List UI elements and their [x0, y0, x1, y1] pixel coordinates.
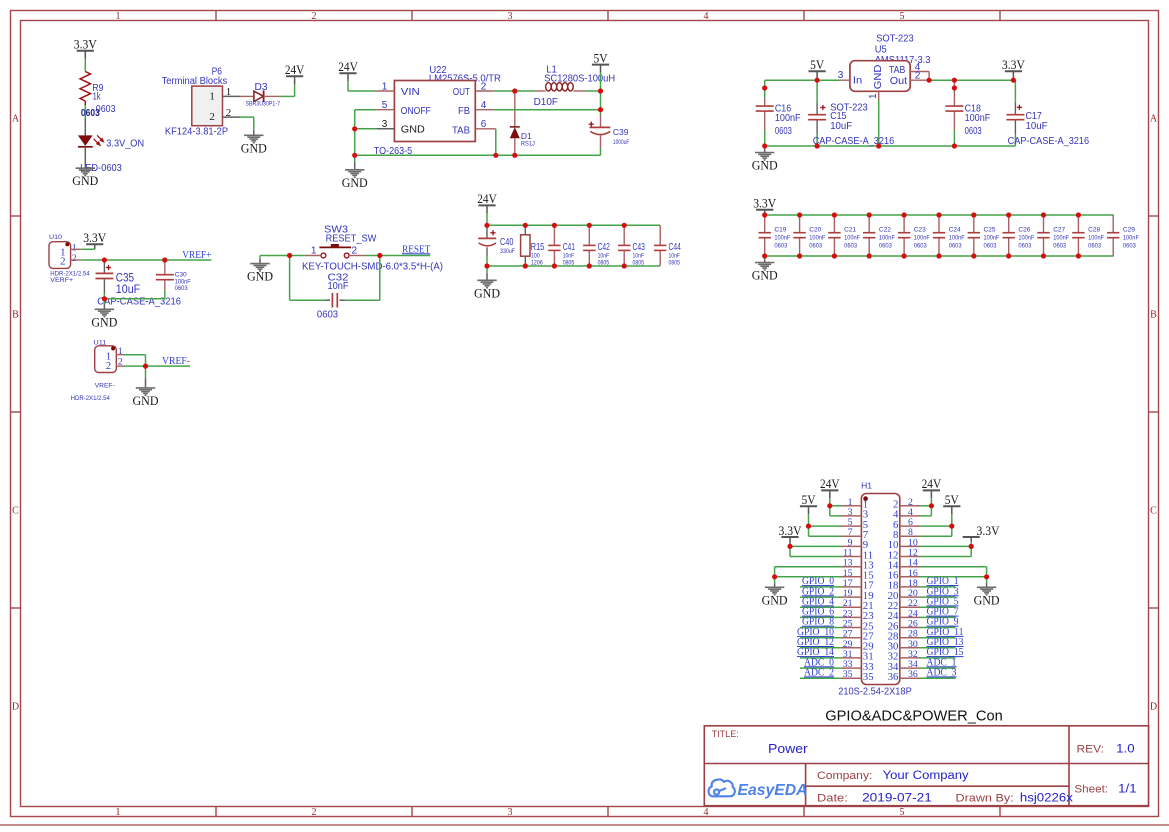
svg-text:D: D — [12, 702, 19, 713]
wire net GPIO_10 — [800, 637, 842, 639]
pin 35 — [842, 677, 861, 679]
svg-text:0603: 0603 — [774, 243, 787, 250]
pin 6 TAB — [475, 128, 496, 130]
diode D3 — [240, 95, 254, 97]
capacitor C42 — [588, 225, 590, 245]
svg-text:2: 2 — [915, 71, 921, 82]
svg-text:6: 6 — [481, 119, 487, 130]
svg-text:C19: C19 — [774, 227, 786, 234]
junction — [352, 126, 357, 131]
capacitor C22 — [868, 215, 870, 233]
wire — [84, 105, 86, 119]
capacitor C15 — [816, 80, 818, 103]
wire OUT — [493, 90, 535, 92]
junction — [622, 263, 627, 268]
ground — [354, 155, 356, 162]
svg-text:1: 1 — [116, 11, 121, 22]
junction — [512, 88, 517, 93]
pin 28 — [900, 637, 920, 639]
wire RESET — [365, 255, 430, 257]
wire net GPIO_13 — [920, 647, 956, 649]
junction — [523, 223, 528, 228]
svg-text:35: 35 — [843, 669, 853, 680]
pin 22 — [900, 606, 920, 608]
pin 20 — [900, 596, 920, 598]
svg-text:1: 1 — [311, 245, 317, 256]
svg-text:100nF: 100nF — [774, 235, 790, 242]
wire net ADC_1 — [920, 667, 956, 669]
svg-text:100nF: 100nF — [984, 235, 1000, 242]
svg-text:TAB: TAB — [452, 125, 470, 137]
svg-text:100nF: 100nF — [1123, 235, 1139, 242]
svg-text:ADC_3: ADC_3 — [927, 667, 957, 678]
svg-text:GND: GND — [974, 592, 1000, 607]
svg-text:GND: GND — [401, 124, 425, 136]
svg-text:24V: 24V — [820, 476, 840, 491]
svg-text:D10F: D10F — [534, 96, 558, 108]
svg-text:C: C — [12, 506, 19, 517]
junction — [867, 253, 872, 258]
svg-text:2: 2 — [312, 11, 317, 22]
svg-text:B: B — [1150, 310, 1157, 321]
wire net GPIO_11 — [920, 637, 956, 639]
pin 1 GND — [878, 91, 880, 100]
svg-text:100nF: 100nF — [1053, 235, 1069, 242]
pin 1 VIN — [376, 90, 394, 92]
wire TAB down — [495, 129, 497, 156]
svg-text:0603: 0603 — [844, 243, 857, 250]
junction — [587, 223, 592, 228]
svg-text:5V: 5V — [945, 492, 960, 507]
wire left — [260, 255, 305, 257]
svg-text:RESET: RESET — [402, 244, 430, 255]
wire 3.3V pins 9,11 — [790, 545, 842, 547]
svg-text:5V: 5V — [810, 57, 825, 72]
svg-text:RS1J: RS1J — [521, 140, 535, 147]
svg-text:10uF: 10uF — [1026, 120, 1048, 132]
svg-text:D: D — [1150, 702, 1157, 713]
svg-text:Sheet:: Sheet: — [1074, 784, 1108, 796]
svg-text:Your Company: Your Company — [883, 770, 969, 782]
pin 24 — [900, 616, 920, 618]
svg-text:CAP-CASE-A_3216: CAP-CASE-A_3216 — [813, 135, 895, 147]
wire net ADC_2 — [800, 677, 842, 679]
svg-text:U10: U10 — [49, 234, 62, 241]
wire net GPIO_15 — [920, 657, 956, 659]
svg-text:GND: GND — [241, 140, 267, 155]
capacitor C27 — [1043, 215, 1045, 233]
wire FB — [493, 109, 600, 111]
svg-text:1: 1 — [72, 243, 77, 254]
ground — [145, 366, 147, 378]
pin 11 — [842, 556, 861, 558]
junction — [762, 253, 767, 258]
svg-text:3.3V: 3.3V — [83, 230, 107, 245]
svg-text:4: 4 — [704, 807, 709, 818]
resistor R9 — [80, 72, 90, 102]
pin 15 — [842, 576, 861, 578]
svg-text:In: In — [853, 75, 862, 87]
wire — [124, 354, 146, 356]
capacitor C39 — [589, 123, 594, 125]
junction — [1011, 78, 1016, 83]
capacitor C16 — [764, 80, 766, 98]
svg-text:VERF+: VERF+ — [50, 277, 73, 284]
svg-text:0603: 0603 — [1053, 243, 1066, 250]
junction — [929, 503, 934, 508]
svg-text:C24: C24 — [949, 227, 961, 234]
svg-text:VREF+: VREF+ — [182, 250, 211, 261]
pin 34 — [900, 667, 920, 669]
svg-text:2: 2 — [209, 111, 215, 123]
pin 4 TAB — [910, 71, 929, 73]
capacitor C44 — [659, 225, 661, 245]
junction — [787, 544, 792, 549]
junction — [1076, 212, 1081, 217]
junction — [622, 223, 627, 228]
junction — [827, 503, 832, 508]
junction — [377, 253, 382, 258]
pin 21 — [842, 606, 861, 608]
svg-text:0603: 0603 — [914, 243, 927, 250]
svg-text:24V: 24V — [338, 59, 358, 74]
svg-text:36: 36 — [908, 669, 918, 680]
svg-text:C28: C28 — [1088, 227, 1100, 234]
svg-text:1: 1 — [868, 93, 879, 99]
svg-text:hsj0226x: hsj0226x — [1020, 793, 1073, 805]
capacitor C18 — [953, 80, 955, 106]
svg-text:VIN: VIN — [401, 86, 420, 98]
junction — [1006, 253, 1011, 258]
wire net GPIO_7 — [920, 616, 956, 618]
junction — [484, 263, 489, 268]
svg-text:0603: 0603 — [965, 125, 982, 137]
svg-text:CAP-CASE-A_3216: CAP-CASE-A_3216 — [1008, 135, 1090, 147]
pin 4 — [900, 515, 920, 517]
pin 30 — [900, 647, 920, 649]
svg-text:0603: 0603 — [809, 243, 822, 250]
svg-text:GND: GND — [872, 64, 884, 89]
svg-text:100nF: 100nF — [1018, 235, 1034, 242]
svg-text:OUT: OUT — [453, 86, 471, 98]
svg-text:C25: C25 — [984, 227, 996, 234]
svg-text:GND: GND — [133, 393, 159, 408]
wire net GPIO_5 — [920, 606, 956, 608]
pin 1 — [842, 505, 861, 507]
capacitor C41 — [553, 225, 555, 245]
pin 3 GND — [376, 128, 394, 130]
wire net GPIO_9 — [920, 627, 956, 629]
pin 18 — [900, 586, 920, 588]
capacitor C23 — [903, 215, 905, 233]
junction — [598, 88, 603, 93]
svg-text:REV:: REV: — [1077, 744, 1105, 756]
ground — [244, 134, 263, 136]
svg-text:35: 35 — [863, 671, 874, 683]
junction — [902, 212, 907, 217]
junction — [1006, 212, 1011, 217]
wire GND pins 14,16 — [920, 566, 987, 568]
svg-text:5V: 5V — [594, 50, 609, 65]
svg-text:0603: 0603 — [1123, 243, 1136, 250]
junction — [493, 153, 498, 158]
svg-text:10uF: 10uF — [830, 120, 852, 132]
junction — [772, 574, 777, 579]
capacitor C43 — [623, 225, 625, 245]
svg-text:KF124-3.81-2P: KF124-3.81-2P — [165, 127, 228, 138]
svg-text:0603: 0603 — [1018, 243, 1031, 250]
pin leads — [305, 255, 321, 257]
svg-text:2: 2 — [72, 253, 77, 264]
svg-text:100nF: 100nF — [1088, 235, 1104, 242]
svg-text:2: 2 — [352, 245, 358, 256]
pin 27 — [842, 637, 861, 639]
wire — [348, 90, 376, 92]
svg-text:3.3V: 3.3V — [779, 523, 803, 538]
wire net GPIO_4 — [800, 606, 842, 608]
svg-text:C27: C27 — [1053, 227, 1065, 234]
pin 17 — [842, 586, 861, 588]
junction — [762, 85, 767, 90]
pin 1 lead — [71, 248, 81, 250]
junction — [143, 364, 148, 369]
capacitor C28 — [1077, 215, 1079, 233]
junction — [523, 263, 528, 268]
wire 5V rail — [765, 79, 841, 81]
junction — [587, 263, 592, 268]
ground — [764, 256, 766, 259]
pin 2 lead — [223, 116, 241, 118]
wire — [103, 296, 105, 299]
wire net GPIO_14 — [800, 657, 842, 659]
svg-text:5: 5 — [900, 807, 905, 818]
junction — [832, 212, 837, 217]
svg-text:100nF: 100nF — [914, 235, 930, 242]
svg-text:2019-07-21: 2019-07-21 — [862, 793, 932, 805]
wire net ADC_3 — [920, 677, 956, 679]
capacitor C40 — [490, 232, 495, 234]
svg-text:0603: 0603 — [984, 243, 997, 250]
svg-text:GND: GND — [72, 173, 98, 188]
svg-text:Out: Out — [890, 75, 907, 87]
svg-text:GND: GND — [91, 314, 117, 329]
svg-text:3.3V: 3.3V — [1002, 57, 1026, 72]
svg-text:GND: GND — [247, 269, 273, 284]
wire to C39 — [600, 91, 602, 115]
svg-text:ADC_2: ADC_2 — [804, 667, 834, 678]
junction — [762, 143, 767, 148]
bottom rail wire — [765, 145, 1016, 147]
svg-text:1206: 1206 — [531, 259, 543, 266]
svg-text:100nF: 100nF — [949, 235, 965, 242]
svg-text:3: 3 — [508, 807, 513, 818]
junction — [971, 253, 976, 258]
wire net ADC_0 — [800, 667, 842, 669]
capacitor C29 — [1112, 215, 1114, 233]
svg-text:5: 5 — [382, 100, 388, 111]
svg-text:C29: C29 — [1123, 227, 1135, 234]
wire VREF+ — [81, 259, 212, 261]
wire cap loop — [289, 256, 291, 301]
ground — [76, 167, 95, 169]
svg-text:C21: C21 — [844, 227, 856, 234]
ground — [486, 266, 488, 273]
svg-text:0603: 0603 — [81, 107, 100, 119]
svg-text:C43: C43 — [633, 241, 645, 253]
pin 2 OUT — [475, 90, 493, 92]
svg-text:10nF: 10nF — [327, 280, 348, 292]
svg-text:EasyEDA: EasyEDA — [738, 782, 808, 799]
junction — [352, 153, 357, 158]
junction — [1076, 253, 1081, 258]
wire net GPIO_6 — [800, 616, 842, 618]
svg-text:ONOFF: ONOFF — [401, 105, 431, 117]
junction — [927, 78, 932, 83]
wire — [81, 248, 95, 250]
svg-text:2: 2 — [481, 81, 487, 92]
junction — [815, 78, 820, 83]
junction — [952, 143, 957, 148]
pin 36 — [900, 677, 920, 679]
wire 5V pins 5,7 — [809, 525, 843, 527]
svg-text:GND: GND — [762, 592, 788, 607]
pin 7 — [842, 535, 861, 537]
svg-text:1: 1 — [209, 90, 215, 102]
wire 3.3V rail — [929, 79, 1015, 81]
svg-text:GND: GND — [342, 175, 368, 190]
wire GND pin — [355, 128, 377, 130]
wire GND pins 13,15 — [775, 566, 842, 568]
svg-text:0603: 0603 — [1088, 243, 1101, 250]
svg-text:CAP-CASE-A_3216: CAP-CASE-A_3216 — [97, 296, 181, 308]
wire net GPIO_2 — [800, 596, 842, 598]
top rail wire — [487, 224, 660, 226]
svg-text:3: 3 — [382, 119, 388, 130]
svg-text:2: 2 — [60, 256, 65, 268]
capacitor C26 — [1008, 215, 1010, 233]
svg-text:A: A — [12, 114, 20, 125]
svg-text:GPIO&ADC&POWER_Con: GPIO&ADC&POWER_Con — [825, 708, 1003, 725]
junction — [484, 223, 489, 228]
svg-text:C20: C20 — [809, 227, 821, 234]
wire net GPIO_12 — [800, 647, 842, 649]
svg-text:A: A — [1150, 114, 1158, 125]
junction — [797, 253, 802, 258]
svg-text:24V: 24V — [922, 476, 942, 491]
svg-text:0805: 0805 — [598, 259, 610, 266]
ground — [103, 299, 105, 304]
svg-text:C: C — [1150, 506, 1157, 517]
svg-text:RESET_SW: RESET_SW — [326, 233, 377, 245]
pin 1 lead — [223, 95, 241, 97]
junction — [797, 212, 802, 217]
svg-text:R15: R15 — [531, 241, 545, 253]
junction — [949, 524, 954, 529]
ground right — [986, 577, 988, 583]
svg-text:100nF: 100nF — [809, 235, 825, 242]
pin 1 lead — [116, 354, 124, 356]
bottom rail wire — [355, 154, 601, 156]
svg-text:H1: H1 — [861, 481, 872, 491]
junction — [984, 574, 989, 579]
svg-text:C39: C39 — [613, 127, 629, 137]
pin 2 lead — [116, 365, 124, 367]
svg-text:3: 3 — [838, 70, 844, 81]
svg-text:4: 4 — [704, 11, 709, 22]
capacitor C32 — [325, 299, 330, 301]
junction — [952, 78, 957, 83]
svg-text:5V: 5V — [802, 492, 817, 507]
wire 24V pins 2,4 — [920, 505, 932, 507]
pin 25 — [842, 627, 861, 629]
svg-text:1/1: 1/1 — [1118, 784, 1136, 796]
svg-text:1.0: 1.0 — [1116, 744, 1134, 756]
capacitor C30 — [164, 260, 166, 275]
pin 29 — [842, 647, 861, 649]
svg-text:3: 3 — [508, 11, 513, 22]
svg-text:4: 4 — [481, 100, 487, 111]
junction — [287, 253, 292, 258]
pin 3 — [842, 515, 861, 517]
diode D1 — [514, 91, 516, 127]
junction — [162, 257, 167, 262]
svg-text:3.3V_ON: 3.3V_ON — [106, 137, 144, 149]
svg-text:0603: 0603 — [949, 243, 962, 250]
svg-text:C42: C42 — [598, 241, 610, 253]
pin 33 — [842, 667, 861, 669]
svg-text:C40: C40 — [500, 236, 514, 248]
svg-text:0603: 0603 — [775, 125, 792, 137]
svg-text:3.3V: 3.3V — [753, 196, 777, 211]
ground — [764, 146, 766, 149]
LED 3.3V indicator — [84, 119, 86, 136]
svg-text:D3: D3 — [255, 82, 268, 93]
pin 2 lead — [71, 259, 81, 261]
junction — [102, 296, 107, 301]
junction — [1041, 212, 1046, 217]
wire VREF- — [124, 365, 190, 367]
bottom rail wire — [487, 265, 660, 267]
junction — [876, 143, 881, 148]
wire net GPIO_0 — [800, 586, 842, 588]
pin 16 — [900, 576, 920, 578]
wire — [585, 90, 601, 92]
wire to 24V — [279, 95, 294, 97]
wire net GPIO_3 — [920, 596, 956, 598]
svg-text:24V: 24V — [477, 191, 497, 206]
wire net GPIO_1 — [920, 586, 956, 588]
ground — [259, 256, 261, 260]
svg-text:0603: 0603 — [317, 309, 338, 321]
pin 3 In — [840, 79, 850, 81]
svg-text:C41: C41 — [563, 241, 575, 253]
svg-text:3.3V: 3.3V — [74, 37, 98, 52]
pin 31 — [842, 657, 861, 659]
bottom rail wire — [765, 255, 1114, 257]
svg-text:SBR3U30P1-7: SBR3U30P1-7 — [246, 100, 281, 107]
junction — [867, 212, 872, 217]
capacitor C25 — [973, 215, 975, 233]
svg-text:Drawn By:: Drawn By: — [956, 793, 1014, 805]
svg-text:1k: 1k — [93, 91, 102, 103]
junction — [512, 153, 517, 158]
title block table — [704, 726, 1148, 806]
svg-text:24V: 24V — [285, 62, 305, 77]
junction — [1041, 253, 1046, 258]
svg-text:0805: 0805 — [633, 259, 645, 266]
capacitor C24 — [938, 215, 940, 233]
pin 26 — [900, 627, 920, 629]
